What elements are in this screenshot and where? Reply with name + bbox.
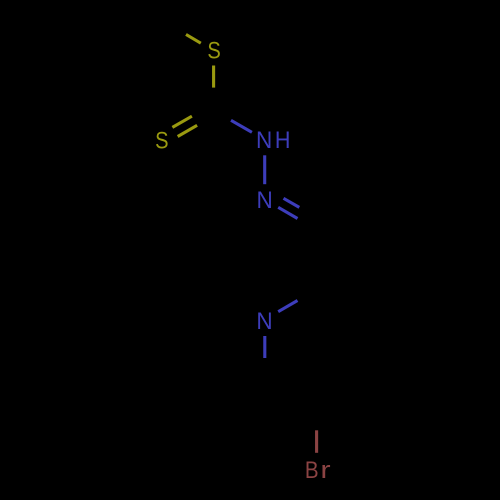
double bond C1=S2 line1 (S-colored half) [172, 116, 192, 127]
svg-text:S: S [155, 127, 168, 154]
svg-text:B: B [305, 456, 319, 483]
bond S1-C1 (S-colored half) [212, 66, 215, 88]
double bond N2=C7 inner line (N-colored half) [284, 198, 300, 207]
bond CH3-S1 (S-colored half) [186, 34, 201, 43]
svg-text:N: N [256, 126, 272, 153]
svg-text:H: H [275, 126, 291, 154]
svg-text:N: N [256, 186, 272, 213]
bond C5-Br (Br-colored half) [315, 430, 318, 453]
svg-text:N: N [256, 307, 272, 334]
bond C1-N3H (N-colored half) [231, 120, 252, 132]
svg-text:S: S [207, 37, 220, 64]
svg-text:r: r [320, 456, 330, 483]
double bond C1=S2 line2 (S-colored half) [178, 125, 197, 136]
bond N3H-N2 (N-N, fully blue) [263, 155, 266, 184]
bond N1-C2 pyridine (N-colored half) [278, 301, 297, 312]
bond N1-C6 pyridine (N-colored half) [263, 336, 266, 358]
double bond N2=C7 main line (N-colored half) [278, 207, 297, 218]
